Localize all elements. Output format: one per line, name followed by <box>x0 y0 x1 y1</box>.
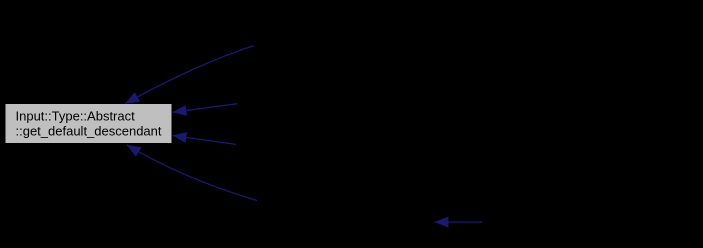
svg-text:Input::Type::Abstract: Input::Type::Abstract <box>16 109 136 124</box>
edge b: upper right caller <box>173 104 238 113</box>
node: Input::Type::Abstract::get_default_descendant <box>6 104 172 143</box>
edge d: bottom caller <box>127 145 257 201</box>
svg-text:::get_default_descendant: ::get_default_descendant <box>16 124 162 139</box>
edge e: bottom chain arrow <box>435 221 483 223</box>
edge c: lower right caller <box>173 136 237 145</box>
edge a: from top caller <box>125 46 253 104</box>
